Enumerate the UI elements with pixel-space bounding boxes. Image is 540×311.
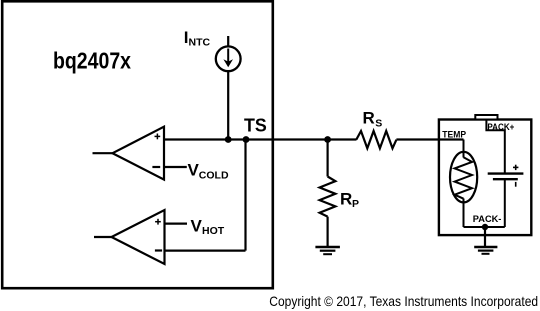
- svg-text:Copyright © 2017, Texas Instru: Copyright © 2017, Texas Instruments Inco…: [269, 293, 538, 309]
- svg-text:V: V: [191, 217, 203, 236]
- svg-text:V: V: [188, 160, 200, 179]
- svg-text:COLD: COLD: [199, 169, 229, 181]
- svg-text:R: R: [363, 109, 375, 128]
- svg-text:P: P: [352, 198, 359, 210]
- svg-text:R: R: [340, 189, 352, 208]
- svg-text:HOT: HOT: [202, 225, 225, 237]
- svg-text:bq2407x: bq2407x: [53, 48, 131, 74]
- svg-text:PACK-: PACK-: [473, 214, 502, 224]
- svg-text:TEMP: TEMP: [442, 129, 466, 139]
- svg-text:NTC: NTC: [189, 36, 211, 48]
- svg-text:TS: TS: [244, 116, 267, 136]
- svg-text:S: S: [375, 117, 382, 129]
